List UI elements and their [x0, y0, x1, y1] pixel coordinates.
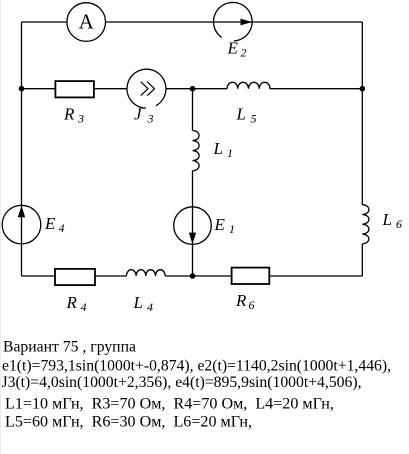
label L5	[236, 104, 257, 125]
label E2	[227, 38, 247, 59]
wire right vertical lower	[361, 244, 363, 276]
current source J3	[127, 69, 166, 108]
svg-text:L: L	[382, 210, 392, 229]
svg-text:4: 4	[59, 221, 65, 235]
label L6	[382, 210, 403, 231]
svg-text:Вариант 75 , группа: Вариант 75 , группа	[3, 339, 136, 356]
svg-text:E: E	[44, 214, 56, 233]
wire left vertical	[21, 22, 23, 276]
label J3	[134, 104, 154, 125]
label R4	[66, 293, 87, 314]
svg-text:L5=60 мГн, R6=30 Ом, L6=20 м: L5=60 мГн, R6=30 Ом, L6=20 мГн,	[5, 414, 252, 431]
resistor R3	[55, 81, 94, 97]
svg-text:R: R	[66, 293, 78, 312]
source E2	[214, 2, 253, 41]
svg-text:L1=10 мГн, R3=70 Ом, R4=70 О: L1=10 мГн, R3=70 Ом, R4=70 Ом, L4=20 мГн…	[5, 396, 334, 413]
inductor L5	[227, 82, 270, 88]
svg-text:L: L	[236, 104, 246, 123]
svg-text:E: E	[214, 215, 226, 234]
wire row2 left	[22, 88, 56, 90]
wire row2 J3-L5	[166, 88, 227, 90]
label E4	[44, 214, 65, 235]
svg-text:1: 1	[227, 146, 233, 160]
inductor L4	[126, 270, 165, 276]
svg-text:3: 3	[77, 111, 84, 125]
resistor R4	[55, 269, 95, 285]
wire top-right segment through E2	[106, 21, 363, 23]
svg-text:R: R	[63, 104, 75, 123]
label L4	[133, 293, 154, 314]
junction dot left row2	[19, 86, 25, 92]
source E4	[2, 205, 41, 244]
label R3	[63, 104, 84, 125]
resistor R6	[232, 268, 270, 284]
ammeter A	[67, 3, 106, 42]
source E1	[174, 207, 212, 245]
svg-text:6: 6	[396, 217, 402, 231]
svg-text:L: L	[213, 139, 223, 158]
label R6	[235, 291, 255, 312]
svg-text:5: 5	[251, 111, 257, 125]
label E1	[214, 215, 236, 236]
inductor L6	[362, 205, 369, 244]
junction dot right row2	[360, 86, 366, 92]
wire bottom L4-R6	[165, 275, 231, 277]
label L1	[213, 139, 234, 160]
inductor L1	[193, 131, 200, 171]
wire right vertical upper	[361, 22, 363, 205]
wire row2 right	[270, 88, 363, 90]
wire bottom left	[22, 275, 56, 277]
junction dot bottom middle	[190, 273, 196, 279]
svg-text:4: 4	[147, 300, 153, 314]
svg-text:R: R	[235, 291, 247, 310]
svg-text:3: 3	[147, 111, 154, 125]
svg-text:L: L	[133, 293, 143, 312]
wire middle vertical upper	[192, 89, 194, 131]
junction dot middle row2	[190, 86, 196, 92]
wire middle vertical lower through E1	[192, 171, 194, 276]
svg-text:1: 1	[229, 222, 235, 236]
wire bottom R4-L4	[95, 275, 126, 277]
svg-text:A: A	[79, 10, 95, 34]
svg-text:2: 2	[241, 46, 247, 60]
svg-text:J3(t)=4,0sin(1000t+2,356), e4(: J3(t)=4,0sin(1000t+2,356), e4(t)=895,9si…	[2, 374, 362, 391]
wire top-left segment	[22, 21, 67, 23]
wire bottom right	[269, 275, 362, 277]
svg-text:e1(t)=793,1sin(1000t+-0,874),: e1(t)=793,1sin(1000t+-0,874), e2(t)=1140…	[2, 358, 391, 375]
svg-text:6: 6	[249, 298, 255, 312]
svg-text:4: 4	[81, 300, 87, 314]
svg-text:E: E	[227, 38, 239, 57]
wire row2 R3-J3	[94, 88, 127, 90]
